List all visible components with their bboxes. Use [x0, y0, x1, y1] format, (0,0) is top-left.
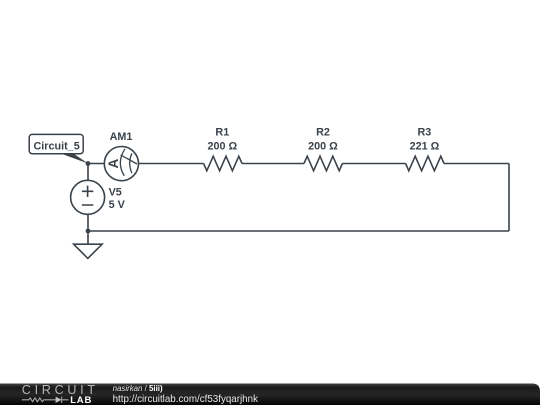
svg-text:R2: R2 — [316, 127, 330, 139]
svg-text:221 Ω: 221 Ω — [410, 141, 440, 153]
svg-text:nasirkan / 5iii): nasirkan / 5iii) — [113, 384, 163, 393]
svg-text:200 Ω: 200 Ω — [207, 141, 237, 153]
svg-text:R3: R3 — [417, 127, 431, 139]
svg-text:Circuit_5: Circuit_5 — [34, 140, 80, 152]
svg-text:LAB: LAB — [70, 395, 92, 405]
svg-text:http://circuitlab.com/cf53fyqa: http://circuitlab.com/cf53fyqarjhnk — [113, 394, 258, 405]
svg-text:R1: R1 — [215, 127, 229, 139]
svg-text:AM1: AM1 — [110, 131, 133, 143]
svg-text:200 Ω: 200 Ω — [308, 141, 338, 153]
svg-text:V5: V5 — [109, 186, 122, 198]
svg-text:A: A — [106, 159, 121, 169]
svg-text:5 V: 5 V — [109, 199, 126, 211]
